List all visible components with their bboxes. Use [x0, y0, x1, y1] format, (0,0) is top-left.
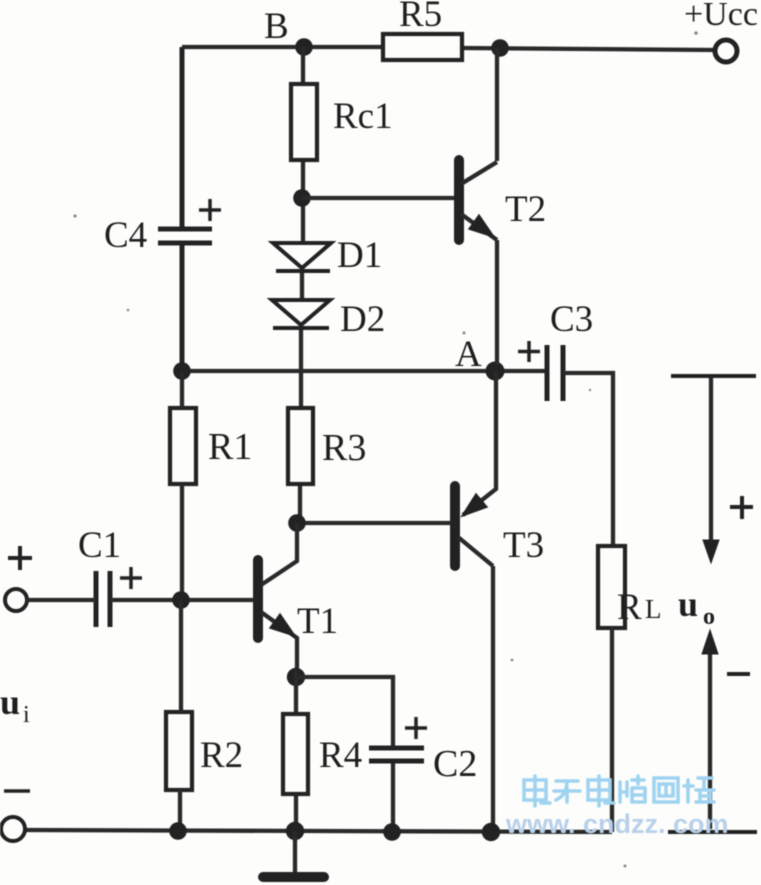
wire T2 base	[302, 196, 455, 200]
junction rail C2	[383, 823, 401, 841]
wire T2 emitter to node A	[495, 240, 499, 365]
wire R1 leads	[180, 371, 184, 600]
diode D2	[272, 300, 330, 328]
svg-text:R1: R1	[208, 426, 252, 468]
transistor T1	[258, 523, 297, 670]
svg-text:T2: T2	[505, 189, 546, 230]
wire T3 emitter from node A	[463, 371, 496, 515]
svg-text:R3: R3	[322, 427, 366, 469]
svg-text:R2: R2	[200, 735, 243, 776]
svg-text:R4: R4	[319, 735, 362, 776]
capacitor C3	[518, 341, 563, 401]
wire top supply rail	[182, 47, 715, 50]
capacitor C2	[369, 717, 427, 761]
resistor Rc1	[291, 84, 317, 160]
svg-text:C2: C2	[433, 743, 477, 785]
resistor R2	[166, 712, 192, 790]
wire middle branch B-Rc1-D1-D2-R3	[300, 47, 303, 523]
watermark site name	[524, 776, 714, 806]
svg-text:B: B	[264, 6, 289, 47]
svg-text:A: A	[455, 334, 482, 375]
diode D1	[273, 243, 331, 271]
terminal +Ucc	[715, 40, 737, 62]
svg-text:C1: C1	[78, 525, 121, 566]
junction R5 right	[491, 39, 509, 57]
svg-text:L: L	[645, 594, 662, 624]
label minus u_o	[727, 672, 750, 676]
svg-text:+Ucc: +Ucc	[684, 0, 758, 33]
junction rail T3 collector	[482, 823, 500, 841]
wire RL to rail	[610, 627, 614, 832]
u_o polarity top bar	[671, 374, 756, 378]
junction C1 / R1 / R2	[172, 591, 190, 609]
resistor R1	[170, 408, 196, 484]
u_o polarity bottom bar	[668, 830, 757, 834]
resistor R5	[383, 34, 462, 60]
node B	[295, 38, 313, 56]
transistor T3	[455, 486, 493, 566]
svg-text:u: u	[0, 682, 20, 722]
capacitor C1	[96, 567, 142, 627]
wire input to T1 base	[27, 598, 254, 602]
svg-text:D2: D2	[340, 299, 385, 340]
transistor T2	[459, 160, 497, 240]
wire emitter junction to C2 and R4	[296, 670, 393, 831]
node A	[486, 362, 505, 381]
junction rail ground	[286, 822, 304, 840]
svg-text:R5: R5	[399, 0, 442, 35]
svg-text:www. cndzz. com: www. cndzz. com	[505, 809, 729, 839]
svg-text:C3: C3	[550, 299, 593, 340]
svg-text:i: i	[23, 702, 30, 728]
capacitor C4	[158, 47, 221, 371]
svg-text:T1: T1	[297, 601, 338, 642]
u_o down arrow	[703, 377, 719, 563]
wire ground rail	[25, 830, 612, 832]
wire T2 collector to supply	[495, 48, 499, 161]
svg-text:u: u	[678, 584, 698, 624]
wire C3 to RL	[563, 373, 613, 546]
junction A-line left	[173, 362, 191, 380]
svg-text:R: R	[617, 587, 642, 628]
junction R3 bottom / T1 collector	[288, 514, 306, 532]
svg-text:T3: T3	[503, 525, 544, 566]
wire T3 collector to rail	[491, 566, 495, 831]
svg-text:Rc1: Rc1	[333, 96, 393, 137]
wire T3 base	[297, 521, 451, 525]
wire R2 leads	[180, 600, 181, 831]
wire node A net	[182, 369, 546, 373]
label input plus sign	[8, 546, 32, 570]
scan specks	[73, 31, 697, 867]
junction rail R2	[169, 822, 187, 840]
terminal input minus	[1, 817, 25, 841]
resistor R3	[288, 408, 313, 484]
label input minus sign	[4, 789, 30, 793]
svg-text:C4: C4	[104, 215, 147, 256]
label plus u_o	[730, 496, 753, 519]
svg-text:o: o	[703, 604, 715, 630]
ground	[263, 831, 324, 877]
svg-text:D1: D1	[337, 235, 382, 276]
terminal input plus	[5, 589, 27, 611]
resistor RL	[598, 546, 625, 628]
junction Rc1 bottom / T2 base	[293, 189, 311, 207]
u_o up arrow	[702, 630, 718, 829]
junction T1 emitter	[287, 668, 305, 686]
resistor R4	[283, 714, 308, 794]
